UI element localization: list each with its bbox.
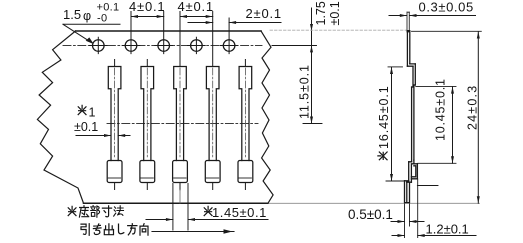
dimension 0.5±0.1: [348, 207, 424, 223]
tape bottom edge: [84, 202, 269, 204]
third segment: [412, 85, 414, 162]
dimension 10.45±0.1: [434, 78, 455, 163]
bend right: [407, 64, 415, 66]
sprocket hole 4: [188, 37, 206, 53]
fourth segment: [409, 162, 414, 182]
sprocket hole 1: [90, 37, 108, 53]
sprocket hole 2: [122, 12, 140, 54]
dimension 2±0.1: [188, 6, 282, 24]
note *1 ±0.1 (terminal width): [74, 105, 130, 137]
connector line bottom (light): [269, 202, 480, 204]
svg-text:2±0.1: 2±0.1: [246, 6, 282, 21]
top tab 0.3 thick: [407, 11, 409, 13]
dimension 4±0.1 (terminals): [178, 0, 214, 18]
svg-text:1: 1: [89, 106, 96, 120]
upper strip: [407, 31, 409, 66]
extension lines right view: [386, 31, 481, 237]
small jog left: [412, 85, 416, 87]
dimension 1.2±0.1: [392, 222, 476, 238]
terminal 3: [173, 12, 188, 204]
tape top edge: [76, 30, 262, 32]
dimension 0.3±0.05: [389, 0, 476, 17]
profile outline: [405, 12, 418, 202]
svg-text:10.45±0.1: 10.45±0.1: [434, 78, 448, 141]
svg-text:16.45±0.1: 16.45±0.1: [377, 85, 391, 149]
dimension 24±0.3: [466, 32, 480, 204]
contact bump: [411, 164, 417, 179]
label: pull-out direction 引き出し方向 with arrow: [81, 224, 234, 236]
svg-text:1.2±0.1: 1.2±0.1: [426, 222, 469, 237]
note *1.45±0.1 (base width): [146, 184, 268, 231]
svg-text:1.5: 1.5: [63, 7, 81, 22]
svg-text:φ: φ: [83, 9, 91, 23]
terminal 1: [107, 60, 122, 190]
second segment: [413, 64, 415, 87]
svg-text:-0: -0: [97, 13, 107, 25]
connector line top (light dotted): [270, 29, 407, 31]
svg-text:±0.1: ±0.1: [328, 1, 342, 25]
label 1.5 phi +0.1/-0: [63, 2, 120, 45]
horizontal centerline through sprocket holes: [63, 45, 262, 47]
terminal 5: [238, 60, 253, 190]
dimension 1.75±0.1 and 11.5±0.1 shared line: [272, 1, 342, 123]
sprocket hole 5: [220, 18, 238, 54]
svg-text:1.75: 1.75: [314, 1, 328, 25]
svg-text:0.3±0.05: 0.3±0.05: [419, 0, 474, 15]
svg-text:4±0.1: 4±0.1: [178, 0, 214, 14]
terminal 2: [140, 60, 155, 190]
svg-text:4±0.1: 4±0.1: [129, 0, 165, 14]
jog at lower area: [409, 160, 418, 164]
left break line: [37, 31, 83, 203]
dimension 4±0.1 (holes): [129, 0, 165, 18]
step left at bottom: [405, 181, 412, 182]
dimension *16.45±0.1: [377, 67, 393, 181]
svg-text:1.45±0.1: 1.45±0.1: [212, 205, 267, 220]
svg-text:0.5±0.1: 0.5±0.1: [348, 207, 393, 222]
svg-text:11.5±0.1: 11.5±0.1: [297, 64, 311, 119]
svg-text:±0.1: ±0.1: [74, 120, 98, 134]
note: bottom part dimensions 底部寸法: [68, 206, 123, 218]
bottom strip (two plies): [405, 181, 410, 203]
svg-text:24±0.3: 24±0.3: [466, 85, 480, 130]
right break line: [261, 31, 273, 203]
sprocket hole 3: [155, 12, 173, 54]
horizontal mid centerline of terminals: [107, 123, 258, 125]
terminal 4: [205, 12, 220, 190]
